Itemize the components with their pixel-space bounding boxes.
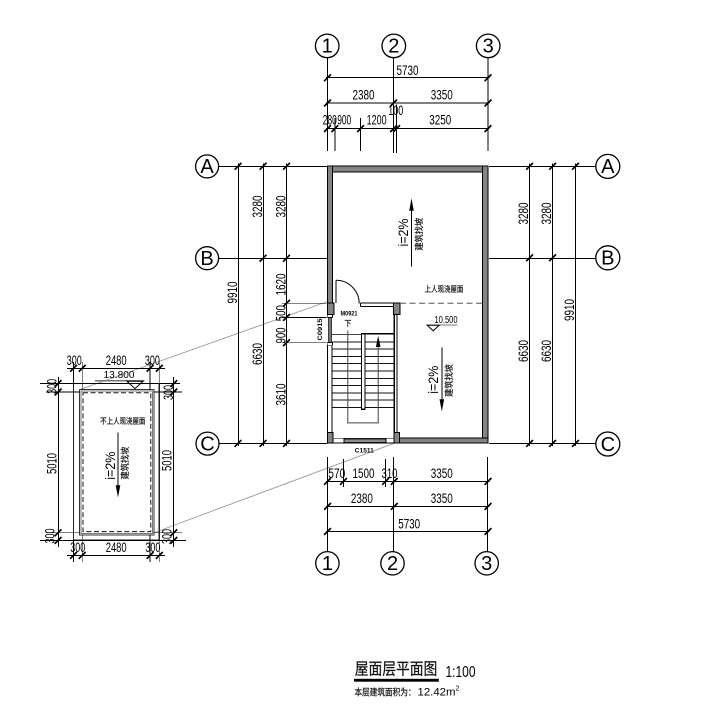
- svg-text:10.500: 10.500: [435, 315, 458, 326]
- svg-text:300: 300: [145, 540, 160, 555]
- svg-text:3280: 3280: [250, 196, 265, 218]
- axis 2 extension line top: [393, 58, 395, 153]
- lower roof slope arrow i=2%: [441, 348, 443, 406]
- extension line 100 tick top: [396, 105, 398, 153]
- svg-text:900: 900: [274, 328, 289, 344]
- svg-text:900: 900: [337, 113, 351, 128]
- svg-text:i=2%: i=2%: [103, 452, 118, 480]
- stair top edge (right flight floor line): [362, 333, 395, 335]
- svg-text:A: A: [200, 156, 214, 178]
- svg-text:2: 2: [387, 553, 398, 575]
- svg-text:3: 3: [483, 36, 494, 58]
- svg-text:570: 570: [328, 466, 345, 481]
- axis 2 extension line bottom: [393, 457, 395, 552]
- ticks dim 2380/3350 bottom: [324, 503, 491, 510]
- title underline: [354, 679, 439, 682]
- ticks dim chain top: [324, 125, 491, 132]
- penthouse vertical extension stubs bottom chain: [73, 540, 75, 562]
- svg-text:2480: 2480: [106, 540, 127, 555]
- ticks dim 5730 bottom: [324, 528, 491, 535]
- slope text 建筑找坡 upper: [415, 218, 423, 250]
- svg-text:3250: 3250: [429, 113, 451, 128]
- stair direction arrowhead (up): [376, 336, 381, 347]
- svg-text:6630: 6630: [516, 340, 531, 362]
- svg-text:C: C: [200, 433, 214, 455]
- svg-text:6630: 6630: [539, 340, 554, 362]
- axis circle 3 top: [476, 34, 500, 58]
- svg-text:C1511: C1511: [355, 448, 374, 455]
- svg-text:300: 300: [161, 385, 176, 400]
- penthouse slope arrow: [117, 433, 119, 491]
- bottom wall faces across stair bay: [333, 437, 394, 439]
- penthouse bottom dim line: [67, 555, 165, 557]
- svg-text:5730: 5730: [398, 516, 420, 531]
- svg-text:3350: 3350: [431, 88, 453, 103]
- svg-text:3280: 3280: [273, 196, 288, 218]
- ticks 9910 left: [235, 163, 242, 447]
- axis B line right: [489, 258, 596, 260]
- svg-text:9910: 9910: [225, 282, 240, 304]
- axis circle A right: [596, 154, 620, 178]
- axis circle 3 bottom: [475, 552, 498, 576]
- title 屋面层平面图: [355, 661, 436, 676]
- svg-text:2380: 2380: [351, 491, 373, 506]
- axis 3 extension line top: [487, 58, 489, 151]
- dim line 9910 left: [238, 164, 240, 447]
- partition wall between stair and right roof area: [393, 315, 395, 433]
- window C0915 sill lines: [327, 314, 332, 316]
- penthouse top dim line: [67, 368, 165, 370]
- penthouse bottom edge extension line: [40, 539, 186, 541]
- svg-text:3280: 3280: [516, 203, 531, 225]
- svg-text:310: 310: [382, 466, 398, 481]
- svg-text:100: 100: [388, 103, 403, 118]
- extension line 1500 tick bottom: [385, 459, 387, 487]
- extension stub 500 dim left: [282, 302, 327, 304]
- svg-text:300: 300: [145, 353, 160, 368]
- penthouse inner-face extension stubs: [46, 391, 79, 393]
- axis C line left: [219, 443, 327, 445]
- penthouse top edge extension line: [40, 383, 180, 385]
- svg-text:M0921: M0921: [341, 310, 358, 317]
- svg-text:3350: 3350: [431, 491, 453, 506]
- ticks 3280/6630 left: [260, 163, 267, 447]
- svg-text:280: 280: [323, 113, 337, 128]
- svg-text:A: A: [601, 156, 615, 178]
- ticks col1 right: [526, 163, 533, 447]
- level mark 10.500 triangle: [427, 325, 439, 331]
- svg-text:1500: 1500: [353, 466, 375, 481]
- window C0915 glazing: [328, 318, 331, 343]
- right wall: [483, 166, 489, 443]
- penthouse right dim ticks: [170, 380, 177, 544]
- stair treads: [332, 342, 394, 408]
- dim line 3280/6630 left: [263, 164, 265, 447]
- level mark 13.800 line: [95, 380, 145, 382]
- axis circle B right: [596, 246, 620, 270]
- ticks dim chain bottom: [324, 478, 491, 485]
- bottom-left pier stair bay: [327, 433, 333, 444]
- axis circle 2 bottom: [381, 552, 404, 576]
- ticks dim 5730 top: [324, 74, 491, 81]
- penthouse outer parapet rect: [74, 384, 160, 541]
- svg-text:1: 1: [322, 553, 333, 575]
- penthouse roof edge dashed rect: [83, 393, 151, 532]
- ticks 9910 right: [572, 163, 579, 447]
- window C1511 glazing: [344, 439, 386, 442]
- door pier left wall: [327, 303, 334, 315]
- svg-text:1:100: 1:100: [446, 664, 476, 681]
- axis circle 2 top: [382, 34, 406, 58]
- svg-text:300: 300: [70, 540, 85, 555]
- level mark 10.500 line: [427, 324, 458, 326]
- svg-text:i=2%: i=2%: [396, 219, 411, 247]
- svg-text:6630: 6630: [250, 343, 265, 365]
- axis circle A left: [196, 155, 219, 178]
- axis circle 1 top: [315, 34, 339, 58]
- svg-text:300: 300: [43, 529, 58, 544]
- extension line 570 tick bottom: [343, 459, 345, 487]
- upper roof slope arrow i=2%: [411, 204, 413, 266]
- svg-text:3350: 3350: [431, 466, 453, 481]
- penthouse vertical extension stubs top chain: [73, 362, 75, 384]
- junction pier interior: [393, 303, 400, 315]
- extension line 900 tick top: [360, 118, 362, 151]
- door M0921 swing arc: [336, 280, 359, 303]
- svg-text:C0915: C0915: [317, 318, 324, 340]
- slope text 建筑找坡 penthouse: [121, 447, 129, 479]
- bottom wall right of stair bay: [400, 438, 489, 443]
- svg-text:i=2%: i=2%: [426, 366, 441, 394]
- svg-text:300: 300: [44, 379, 59, 394]
- axis A line right: [489, 166, 596, 168]
- svg-text:2480: 2480: [106, 353, 127, 368]
- axis 1 extension line top: [327, 58, 329, 151]
- top wall: [327, 166, 488, 172]
- svg-text:1200: 1200: [367, 113, 387, 128]
- leader line from penthouse roof plan to stair bay bottom pier: [152, 443, 395, 534]
- svg-text:2380: 2380: [353, 88, 375, 103]
- penthouse left dim ticks: [55, 380, 62, 544]
- dim line 9910 right: [575, 164, 577, 447]
- svg-text:B: B: [200, 248, 213, 270]
- dim line 5730 bottom: [326, 531, 490, 533]
- ticks col2 right: [549, 163, 556, 447]
- svg-text:300: 300: [67, 353, 82, 368]
- axis circle C left: [196, 432, 219, 455]
- axis C line right: [489, 443, 596, 445]
- axis 1 extension line bottom: [327, 457, 329, 552]
- extension line 280 tick top: [334, 118, 336, 151]
- svg-text:3610: 3610: [274, 384, 289, 406]
- axis B line left: [219, 258, 328, 260]
- penthouse bottom dim ticks: [70, 552, 163, 559]
- slope text 建筑找坡 lower: [445, 364, 453, 396]
- stair walking line (U path): [348, 331, 378, 423]
- svg-text:1: 1: [322, 36, 333, 58]
- penthouse top dim ticks: [70, 365, 163, 372]
- penthouse parapet inner face rect: [79, 390, 154, 535]
- dim line 280/900/1200/100/3250 top: [326, 128, 490, 130]
- bottom-right pier stair bay: [394, 433, 399, 444]
- level mark 13.800 triangle: [127, 381, 143, 388]
- svg-text:13.800: 13.800: [104, 370, 135, 381]
- ticks inner chain left: [283, 163, 290, 447]
- svg-text:1620: 1620: [273, 274, 288, 296]
- svg-text:500: 500: [274, 305, 289, 321]
- svg-text:12.42m: 12.42m: [418, 687, 456, 699]
- svg-text:3: 3: [481, 553, 492, 575]
- dim line 2380/3350 bottom: [326, 506, 490, 508]
- svg-text:2: 2: [456, 686, 460, 693]
- stair first tread left flight: [332, 334, 361, 336]
- dim line 5730 top: [326, 77, 490, 79]
- penthouse left dim line: [58, 377, 60, 547]
- dashed roof zone boundary: [400, 302, 483, 304]
- svg-text:C: C: [601, 434, 615, 456]
- penthouse right dim line: [173, 377, 175, 547]
- svg-text:5010: 5010: [160, 450, 175, 471]
- dim line 2380/3350 top: [326, 102, 490, 104]
- penthouse parapet inner line 2: [81, 391, 153, 533]
- svg-text:5010: 5010: [44, 453, 59, 474]
- axis 3 extension line bottom: [487, 457, 489, 552]
- svg-text:3280: 3280: [539, 203, 554, 225]
- label 不上人现浇屋面 (non-accessible roof): [101, 417, 146, 425]
- left wall below window C0915: [326, 345, 328, 432]
- dim line 3280/6630 right col1: [529, 164, 531, 447]
- axis circle 1 bottom: [316, 552, 339, 576]
- dim line 570/1500/310/3350 bottom: [326, 481, 490, 483]
- extension stub window end left: [282, 342, 327, 344]
- dim line inner chain left: [286, 164, 288, 447]
- dim line 3280/6630 right col2: [552, 164, 554, 447]
- interior wall right of door opening: [360, 302, 393, 304]
- stair center divider / handrail: [362, 334, 365, 410]
- svg-text:300: 300: [159, 529, 174, 544]
- svg-text:5730: 5730: [397, 63, 419, 78]
- svg-text:9910: 9910: [562, 299, 577, 321]
- axis A line left: [219, 166, 328, 168]
- stair label 下 (down): [345, 320, 351, 327]
- left wall upper (axis A to door): [327, 166, 332, 303]
- note 本层建筑面积为：: [355, 687, 411, 696]
- svg-text:B: B: [601, 248, 614, 270]
- leader line from penthouse roof plan to stair door pier: [80, 302, 328, 390]
- label 上人现浇屋面 (accessible roof): [425, 285, 463, 293]
- extension stub window sill left: [282, 316, 327, 318]
- svg-text:2: 2: [388, 36, 399, 58]
- door M0921 leaf: [335, 280, 337, 303]
- axis circle B left: [196, 247, 219, 270]
- ticks dim 2380/3350 top: [324, 100, 491, 107]
- window C1511 jamb lines: [343, 438, 345, 443]
- axis circle C right: [596, 432, 620, 456]
